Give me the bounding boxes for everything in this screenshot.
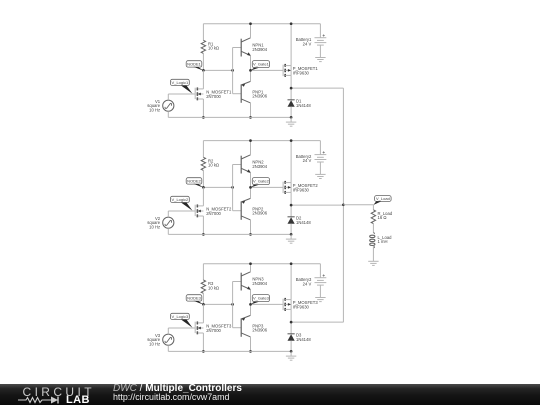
svg-text:1N4148: 1N4148	[296, 220, 311, 225]
transistor N_MOSFET2 2N7000 (N-channel MOSFET)	[194, 205, 196, 216]
wire: P_MOSFET source to rail	[290, 264, 292, 300]
wire: V3 top lead	[167, 328, 169, 334]
ground below Battery2	[315, 173, 325, 175]
wire: P_MOSFET source to rail	[290, 24, 292, 66]
wire: bottom rail block 2	[168, 233, 291, 235]
junction	[231, 186, 234, 189]
wire: L_Load to ground	[372, 246, 374, 261]
junction	[249, 186, 252, 189]
svg-text:1 mH: 1 mH	[378, 239, 388, 244]
svg-text:10 kΩ: 10 kΩ	[208, 46, 219, 51]
wire: R_Load to L_Load	[372, 224, 374, 233]
svg-text:NODE2: NODE2	[187, 178, 202, 183]
battery Battery3 24V	[319, 264, 321, 278]
svg-text:V_Logic1: V_Logic1	[172, 80, 189, 85]
wire: bases vertical	[232, 165, 234, 211]
junction	[290, 204, 293, 207]
wire: V_Gate1 to P_MOSFET gate	[251, 69, 284, 71]
wire: V2 bottom lead	[167, 228, 169, 234]
wire: NPN emitter to V_Gate node	[250, 56, 252, 71]
junction	[249, 69, 252, 72]
junction	[202, 303, 205, 306]
junction	[290, 233, 293, 236]
junction	[249, 22, 252, 25]
svg-text:16 Ω: 16 Ω	[378, 215, 387, 220]
junction	[202, 116, 205, 119]
wire: NPN collector to rail	[250, 24, 252, 38]
inductor L_Load 1 mH	[372, 233, 375, 235]
junction	[249, 139, 252, 142]
wire: top supply rail block 2	[203, 140, 320, 142]
svg-text:2N7000: 2N7000	[206, 94, 221, 99]
voltage source V1 square 10 Hz	[163, 100, 174, 111]
wire: NPN collector to rail	[250, 264, 252, 272]
svg-text:24 V: 24 V	[303, 281, 312, 286]
junction	[290, 321, 293, 324]
junction	[249, 233, 252, 236]
wire: diode branch	[290, 205, 292, 217]
node NODE2 label	[186, 178, 202, 184]
wire: N_MOSFET source to bottom rail	[202, 99, 204, 117]
resistor R_Load 16 Ohm	[372, 205, 374, 210]
wire: diode branch	[290, 88, 292, 100]
wire: V1 bottom lead	[167, 111, 169, 117]
junction	[249, 350, 252, 353]
svg-text:V_Gate2: V_Gate2	[253, 179, 270, 184]
junction	[290, 262, 293, 265]
svg-text:2N7000: 2N7000	[206, 328, 221, 333]
wire: NPN base	[233, 164, 242, 166]
svg-text:2N7000: 2N7000	[206, 211, 221, 216]
junction	[249, 116, 252, 119]
wire: PNP emitter to V_Gate node	[250, 304, 252, 315]
wire: P_MOSFET source to rail	[290, 141, 292, 183]
svg-text:24 V: 24 V	[303, 41, 312, 46]
wire: output bus vertical	[342, 88, 344, 322]
wire: V2 to N_MOSFET gate	[168, 210, 195, 212]
wire: output node to bus	[291, 321, 343, 323]
node V_Logic1 label	[171, 79, 190, 85]
transistor NPN1 2N3904	[240, 39, 242, 57]
junction	[202, 233, 205, 236]
node V_Gate3 label	[252, 295, 269, 302]
junction	[290, 116, 293, 119]
CircuitLab logo text	[23, 385, 95, 399]
ground below Battery3	[315, 297, 325, 299]
junction	[290, 87, 293, 90]
junction	[202, 69, 205, 72]
wire: V_Gate2 to P_MOSFET gate	[251, 186, 284, 188]
wire: NODE2 to transistor bases	[203, 186, 232, 188]
node NODE1 label	[186, 61, 202, 67]
wire: PNP base	[233, 93, 242, 95]
transistor PNP3 2N3906	[240, 318, 242, 336]
transistor N_MOSFET3 2N7000 (N-channel MOSFET)	[194, 322, 196, 333]
wire: top supply rail block 1	[203, 23, 320, 25]
wire: NPN collector to rail	[250, 141, 252, 155]
wire: N_MOSFET source to bottom rail	[202, 333, 204, 351]
svg-text:10 Hz: 10 Hz	[149, 225, 160, 230]
wire: bottom rail block 1	[168, 116, 291, 118]
junction	[231, 69, 234, 72]
resistor R2 10 k&#937;	[202, 141, 204, 158]
junction	[249, 262, 252, 265]
svg-text:10 kΩ: 10 kΩ	[208, 285, 219, 290]
wire: PNP base	[233, 327, 242, 329]
transistor PNP2 2N3906	[240, 201, 242, 219]
svg-text:2N3906: 2N3906	[252, 328, 267, 333]
battery Battery1 24V	[319, 24, 321, 38]
wire: V1 top lead	[167, 94, 169, 100]
wire: NPN base	[233, 47, 242, 49]
svg-text:IRF9630: IRF9630	[293, 187, 310, 192]
wire: diode branch	[290, 322, 292, 334]
wire: V2 top lead	[167, 211, 169, 217]
wire: PNP emitter to V_Gate node	[250, 70, 252, 81]
wire: NPN emitter to V_Gate node	[250, 290, 252, 305]
svg-text:10 Hz: 10 Hz	[149, 342, 160, 347]
wire: V_Gate3 to P_MOSFET gate	[251, 303, 284, 305]
junction	[202, 350, 205, 353]
node V_Load label	[375, 196, 392, 202]
wire: N_MOSFET drain to NODE3	[202, 304, 204, 323]
voltage source V2 square 10 Hz	[163, 217, 174, 228]
wire: NPN base	[233, 281, 242, 283]
svg-text:2N3904: 2N3904	[252, 47, 267, 52]
wire: bases vertical	[232, 282, 234, 328]
node V_Logic3 label	[171, 313, 190, 319]
wire: N_MOSFET source to bottom rail	[202, 216, 204, 234]
wire: NODE3 to transistor bases	[203, 303, 232, 305]
footer title text	[113, 383, 242, 394]
ground at bottom rail block 1	[290, 117, 292, 122]
wire: output node to bus	[291, 204, 343, 206]
wire: P_MOSFET drain to output node	[290, 192, 292, 205]
svg-text:1N4148: 1N4148	[296, 337, 311, 342]
battery Battery2 24V	[319, 141, 321, 155]
transistor P_MOSFET2 IRF9630 (P-channel MOSFET)	[282, 182, 284, 193]
wire: bases vertical	[232, 48, 234, 94]
svg-text:2N3906: 2N3906	[252, 94, 267, 99]
wire: V3 to N_MOSFET gate	[168, 327, 195, 329]
svg-text:IRF9630: IRF9630	[293, 304, 310, 309]
transistor P_MOSFET3 IRF9630 (P-channel MOSFET)	[282, 299, 284, 310]
junction	[290, 139, 293, 142]
wire: N_MOSFET drain to NODE2	[202, 187, 204, 206]
wire: NODE1 to transistor bases	[203, 69, 232, 71]
svg-text:2N3904: 2N3904	[252, 164, 267, 169]
node V_Gate2 label	[252, 178, 269, 185]
transistor PNP1 2N3906	[240, 84, 242, 102]
junction	[290, 22, 293, 25]
wire: PNP emitter to V_Gate node	[250, 187, 252, 198]
wire: PNP base	[233, 210, 242, 212]
junction	[249, 303, 252, 306]
ground at bottom rail block 2	[290, 234, 292, 239]
svg-text:V_Logic3: V_Logic3	[172, 314, 189, 319]
wire: PNP collector to bottom rail	[250, 103, 252, 118]
svg-text:V_Logic2: V_Logic2	[172, 197, 189, 202]
resistor R3 10 k&#937;	[202, 264, 204, 280]
svg-text:2N3904: 2N3904	[252, 281, 267, 286]
ground at bottom rail block 3	[290, 351, 292, 356]
footer bar	[0, 384, 540, 405]
junction	[290, 350, 293, 353]
ground below L_Load	[368, 260, 378, 262]
transistor NPN2 2N3904	[240, 156, 242, 174]
transistor N_MOSFET1 2N7000 (N-channel MOSFET)	[194, 88, 196, 99]
voltage source V3 square 10 Hz	[163, 334, 174, 345]
resistor R1 10 k&#937;	[202, 24, 204, 41]
wire: output node to bus	[291, 87, 343, 89]
svg-text:NODE1: NODE1	[187, 61, 202, 66]
wire: PNP collector to bottom rail	[250, 337, 252, 352]
svg-text:V_Gate1: V_Gate1	[253, 62, 270, 67]
svg-text:2N3906: 2N3906	[252, 211, 267, 216]
wire: V1 to N_MOSFET gate	[168, 93, 195, 95]
svg-text:10 kΩ: 10 kΩ	[208, 163, 219, 168]
wire: PNP collector to bottom rail	[250, 220, 252, 235]
svg-text:1N4148: 1N4148	[296, 103, 311, 108]
svg-text:V_Gate3: V_Gate3	[253, 296, 270, 301]
transistor P_MOSFET1 IRF9630 (P-channel MOSFET)	[282, 65, 284, 76]
svg-text:10 Hz: 10 Hz	[149, 108, 160, 113]
diode D3 1N4148	[288, 333, 295, 335]
wire: V3 bottom lead	[167, 345, 169, 351]
junction	[342, 203, 345, 206]
svg-text:V_Load: V_Load	[376, 196, 390, 201]
wire: P_MOSFET drain to output node	[290, 309, 292, 322]
logo schematic glyph: wire, resistor zigzag, diode	[18, 395, 68, 405]
wire: top supply rail block 3	[203, 263, 320, 265]
node V_Gate1 label	[252, 61, 269, 68]
node V_Logic2 label	[171, 196, 190, 202]
ground below Battery1	[315, 57, 325, 59]
transistor NPN3 2N3904	[240, 273, 242, 291]
wire: P_MOSFET drain to output node	[290, 75, 292, 88]
wire: NPN emitter to V_Gate node	[250, 173, 252, 188]
junction	[202, 186, 205, 189]
wire: N_MOSFET drain to NODE1	[202, 70, 204, 89]
junction	[231, 303, 234, 306]
svg-text:NODE3: NODE3	[187, 295, 202, 300]
svg-text:24 V: 24 V	[303, 158, 312, 163]
wire: bus to load	[343, 204, 373, 206]
svg-text:IRF9630: IRF9630	[293, 70, 310, 75]
wire: bottom rail block 3	[168, 350, 291, 352]
node NODE3 label	[186, 295, 202, 301]
diode D2 1N4148	[288, 216, 295, 218]
diode D1 1N4148	[288, 99, 295, 101]
